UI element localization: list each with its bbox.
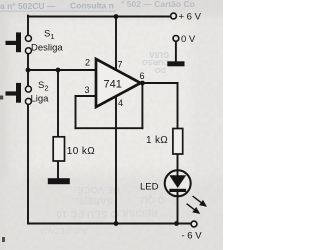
node junction 10k tap bbox=[56, 68, 61, 73]
wire: S2 bottom down to bottom rail corner bbox=[28, 105, 116, 224]
svg-text:UE VOCÊ: UE VOCÊ bbox=[77, 184, 120, 196]
wire: pin 4 down to rail bbox=[115, 96, 117, 224]
node junction output feedback bbox=[140, 81, 145, 86]
svg-text:CURSO: CURSO bbox=[142, 58, 169, 67]
svg-text:0 V: 0 V bbox=[181, 34, 196, 45]
showthrough: bottom-right block bbox=[113, 194, 165, 218]
svg-text:1 kΩ: 1 kΩ bbox=[146, 135, 168, 146]
wire: output down to 1k bbox=[177, 83, 179, 129]
wire: pin 3 stub bbox=[76, 95, 96, 97]
svg-text:4: 4 bbox=[118, 98, 123, 108]
wire: feedback bottom bbox=[76, 127, 143, 129]
wire: 0V terminal drop bbox=[175, 41, 177, 62]
ground below 10k bbox=[48, 178, 70, 184]
switch S2 pushbutton bbox=[6, 83, 32, 105]
switch S1 pushbutton bbox=[6, 32, 32, 53]
svg-text:6: 6 bbox=[140, 71, 145, 81]
wire: feedback left vertical bbox=[75, 96, 77, 128]
svg-text:3: 3 bbox=[85, 85, 90, 95]
svg-text:O QU.: O QU. bbox=[138, 194, 165, 205]
ground (0V bar) bbox=[167, 61, 184, 66]
wire: top-left drop to S1 bbox=[27, 16, 29, 36]
wire: bottom rail bbox=[116, 223, 191, 225]
wire: S1 bottom to node A bbox=[27, 54, 29, 86]
edge artifact mark left bbox=[0, 96, 3, 100]
svg-text:a n° 502CU —: a n° 502CU — bbox=[0, 1, 56, 11]
node junction top rail pin7 bbox=[114, 14, 119, 19]
wire: 10k branch drop bbox=[57, 70, 59, 137]
svg-text:2: 2 bbox=[85, 58, 90, 68]
svg-text:10 kΩ: 10 kΩ bbox=[67, 146, 96, 157]
svg-text:° 502 — Cartão Co: ° 502 — Cartão Co bbox=[121, 0, 195, 9]
node A junction below S1 bbox=[26, 68, 31, 73]
wire: feedback right vertical bbox=[141, 83, 143, 128]
terminal +6V bbox=[171, 13, 177, 19]
svg-text:- 6 V: - 6 V bbox=[182, 231, 203, 242]
wire: 10k to ground bbox=[57, 161, 59, 179]
terminal 0V bbox=[173, 36, 179, 42]
svg-text:+ 6 V: + 6 V bbox=[179, 12, 202, 23]
wire: output pin 6 bbox=[141, 82, 178, 84]
svg-text:GUIA: GUIA bbox=[149, 50, 169, 59]
showthrough: caption "Consulta n 502CU" top-left bbox=[0, 1, 114, 12]
svg-text:O SEU PC 10: O SEU PC 10 bbox=[56, 208, 118, 219]
showthrough: bottom-left block bbox=[39, 184, 120, 235]
svg-text:741: 741 bbox=[104, 79, 122, 91]
svg-text:Liga: Liga bbox=[31, 94, 50, 105]
svg-text:DO: DO bbox=[155, 66, 166, 75]
wire: 1k to LED bbox=[177, 154, 179, 171]
svg-text:Desliga: Desliga bbox=[31, 43, 63, 54]
showthrough: GUIA block right of op-amp bbox=[142, 50, 169, 75]
terminal -6V bbox=[191, 221, 197, 227]
wire: top rail +6V bbox=[28, 16, 171, 18]
wire: node A to pin 2 bbox=[28, 69, 96, 71]
svg-text:RECISA.S: RECISA.S bbox=[113, 207, 158, 218]
svg-text:LED: LED bbox=[140, 182, 159, 193]
node junction bottom rail pin4 bbox=[114, 221, 119, 226]
paper background bbox=[0, 0, 223, 250]
node junction bottom rail LED bbox=[174, 221, 179, 226]
LED light arrows bbox=[187, 196, 206, 213]
paper noise overlay bbox=[0, 0, 223, 250]
wire: LED to rail bbox=[177, 196, 179, 224]
svg-text:Consulta n: Consulta n bbox=[70, 1, 114, 11]
op-amp U1 741 bbox=[96, 59, 141, 107]
LED D1 bbox=[165, 170, 191, 196]
svg-text:SABER...: SABER... bbox=[72, 195, 113, 206]
svg-text:7: 7 bbox=[118, 60, 123, 70]
svg-text:AIG..TEOVIA: AIG..TEOVIA bbox=[39, 226, 88, 235]
resistor R1 10k bbox=[53, 137, 64, 161]
wire: pin 7 drop from rail bbox=[115, 17, 117, 72]
showthrough: rule under caption bbox=[0, 11, 116, 12]
corner mark bottom-left bbox=[2, 237, 5, 242]
resistor R2 1k bbox=[173, 129, 183, 155]
